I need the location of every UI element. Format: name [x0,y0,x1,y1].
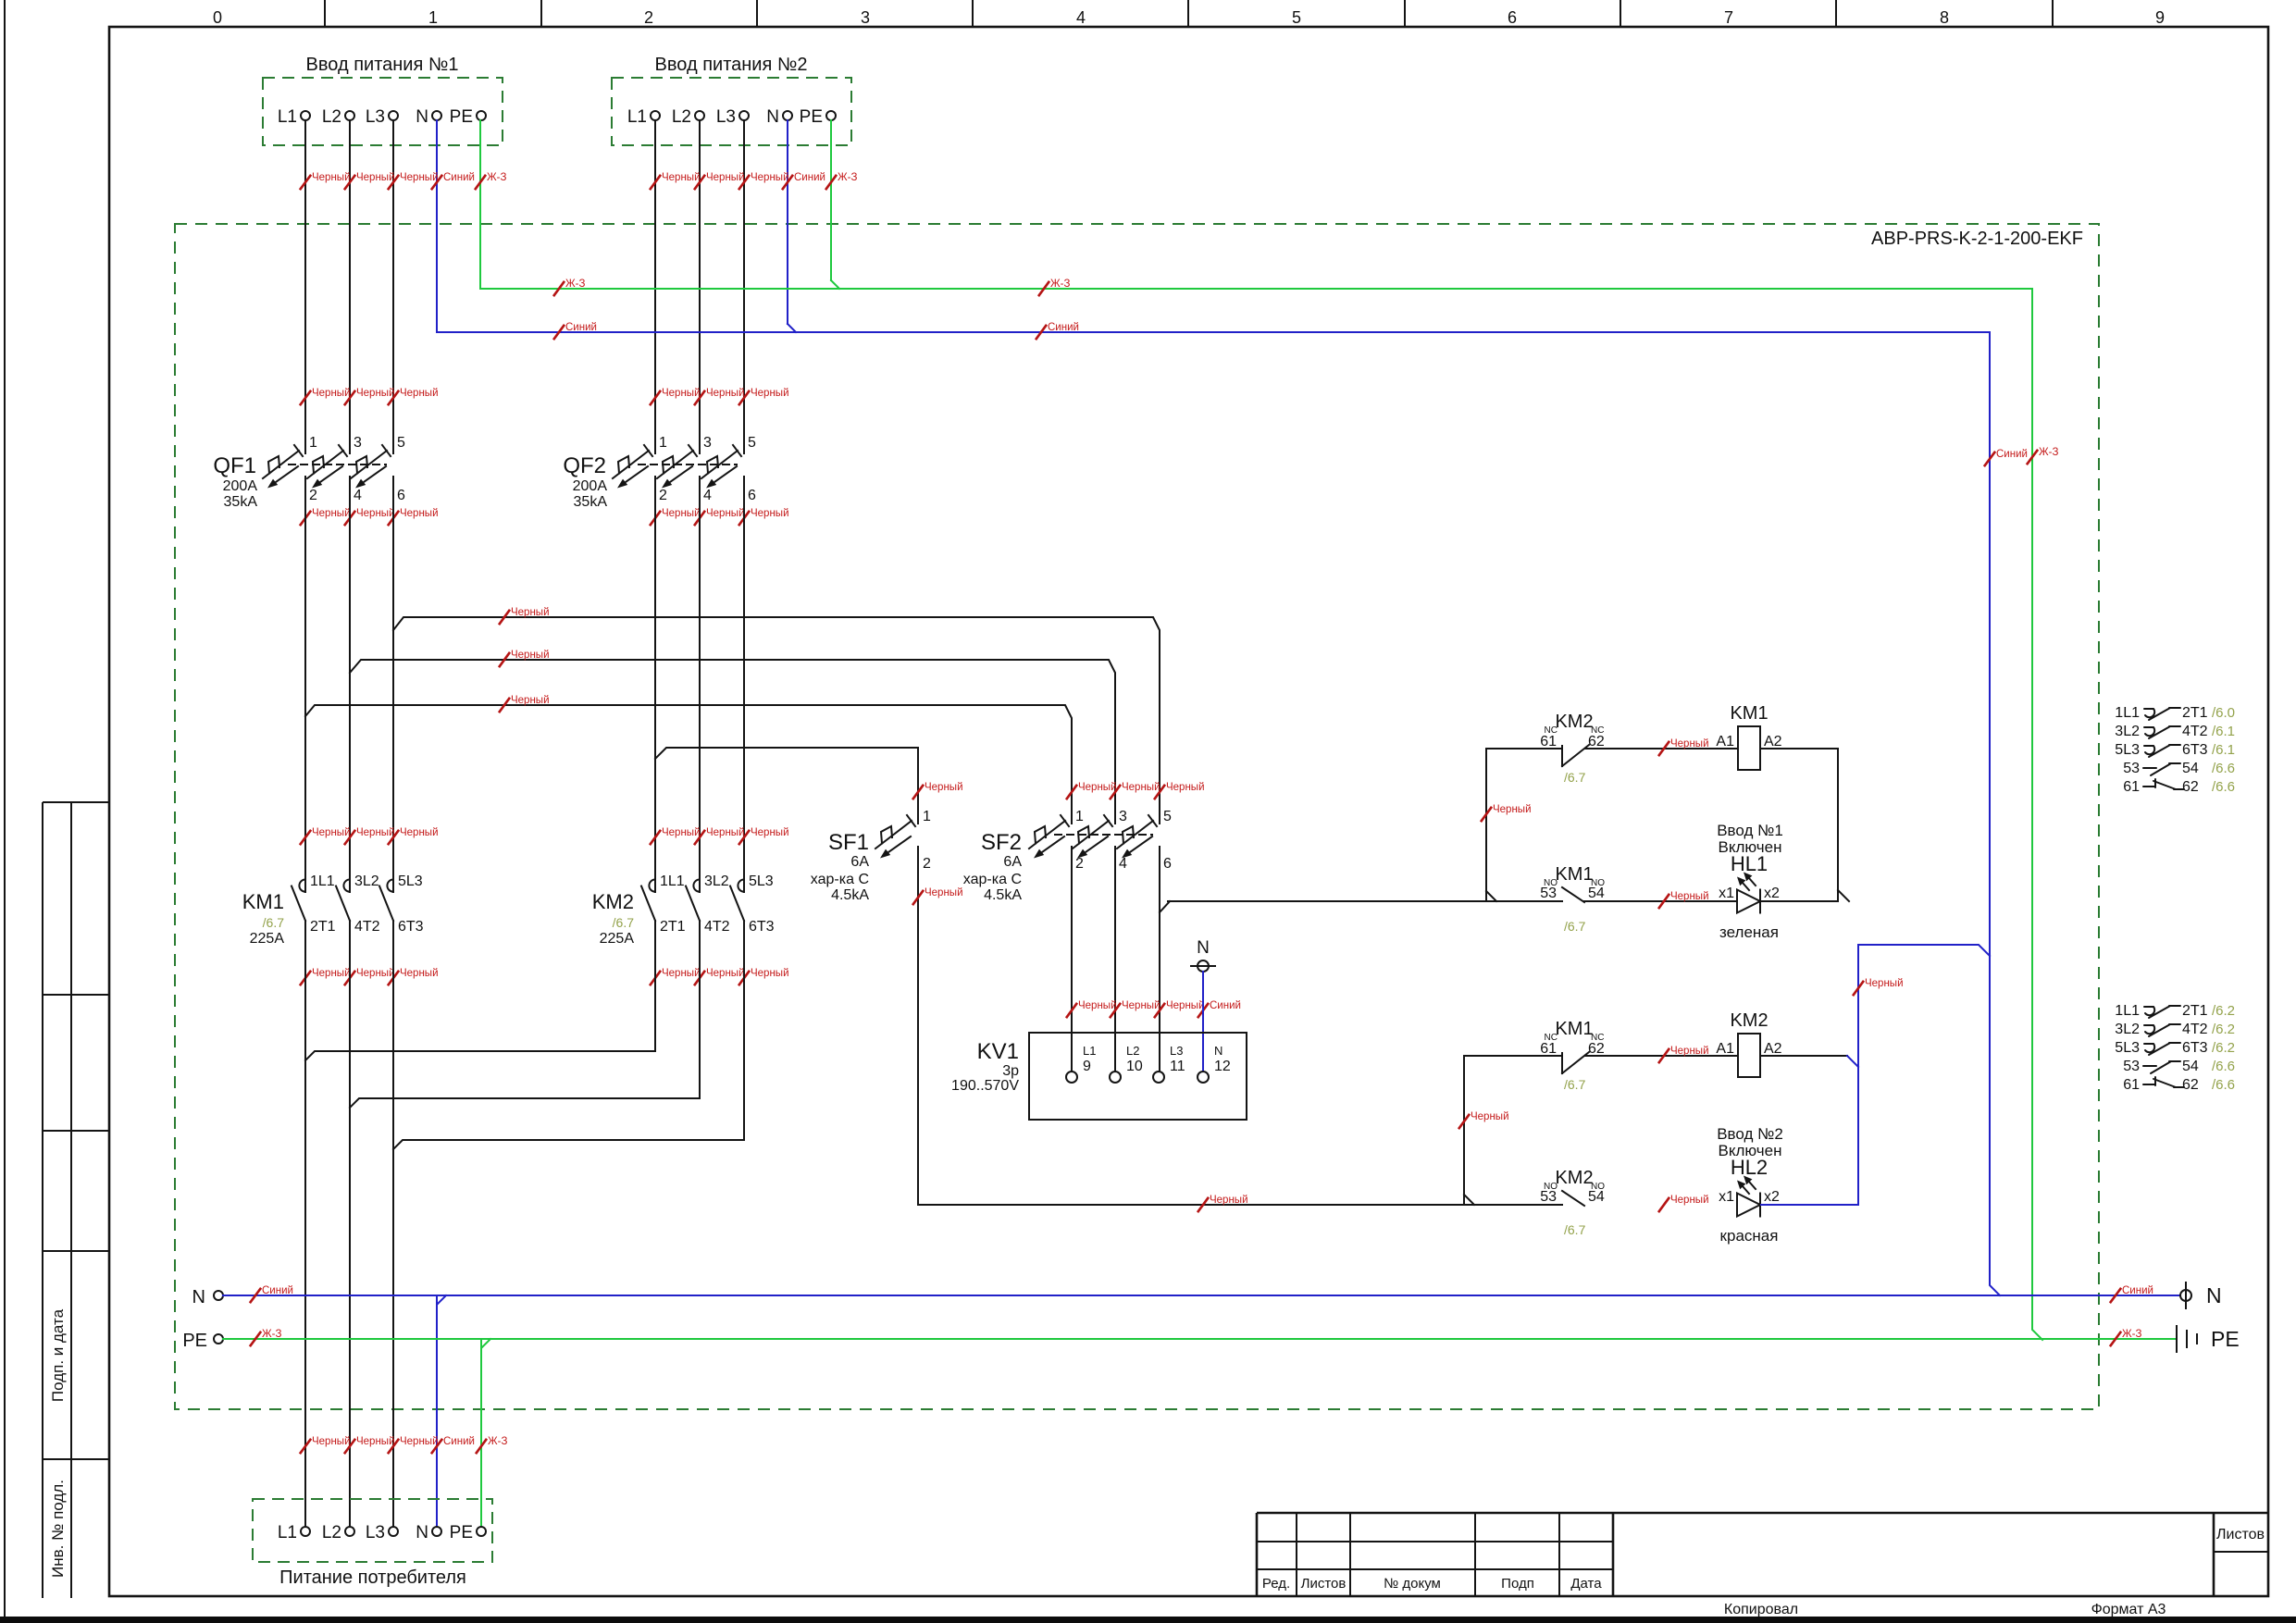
wire label Черный feed [1198,1197,1209,1212]
svg-text:Синий: Синий [2122,1285,2153,1296]
output terminal L1 [301,1527,310,1536]
svg-text:N: N [766,107,779,127]
svg-text:Ж-З: Ж-З [487,172,506,183]
svg-text:KM2: KM2 [1555,712,1593,732]
svg-text:Черный: Черный [356,827,395,838]
sidebar table [42,802,43,1598]
wires KM1 outputs down [304,921,306,1527]
svg-text:/6.7: /6.7 [1564,770,1586,785]
page left edge [4,0,6,1617]
wire labels below QF2 [650,511,661,526]
svg-text:Черный: Черный [1078,782,1117,793]
svg-text:PE: PE [182,1331,207,1351]
terminal Ввод питания №2 L3 [739,111,749,120]
wire labels above SF2 [1066,785,1077,799]
svg-text:Черный: Черный [1210,1195,1248,1206]
svg-text:53: 53 [1540,886,1557,901]
svg-text:QF2: QF2 [563,453,606,478]
page bottom edge strip [0,1617,2296,1623]
wire coil rung group1 left [1486,748,1562,750]
lamp HL1 [1737,890,1760,913]
svg-text:0: 0 [213,8,222,27]
blue return loop group2 [1761,945,1990,1205]
svg-text:6А: 6А [1003,854,1022,870]
bus KM2 4T2 to L2 feeder [350,921,700,1108]
wires QF2 poles down to KM2 [654,759,656,892]
svg-text:6: 6 [1163,856,1172,872]
svg-text:Черный: Черный [706,827,745,838]
bus QF1 L3 to SF2 pin5 [392,477,394,630]
svg-text:Черный: Черный [356,508,395,519]
wire N to KV1 blue [1202,972,1204,1072]
circuit breaker QF1 [263,451,299,478]
svg-text:/6.7: /6.7 [613,915,635,930]
PE branch to output [480,1339,482,1527]
wire KM2NC to coil KM1 [1585,748,1738,750]
svg-text:6T3: 6T3 [398,919,424,935]
contactor KM1 main contacts [299,880,305,892]
wire SF2 pin6 tap to control rung [1160,901,1170,912]
svg-text:5L3: 5L3 [749,873,774,889]
svg-text:Черный: Черный [511,650,550,661]
svg-text:Ж-З: Ж-З [2039,447,2058,458]
svg-text:2T1: 2T1 [2182,705,2208,721]
svg-text:QF1: QF1 [213,453,256,478]
svg-text:L1: L1 [1083,1044,1096,1058]
ruler ticks [324,0,326,27]
wire labels below KM1 [300,971,311,985]
svg-text:Черный: Черный [400,1436,439,1447]
green bus Ж-З horizontal [480,288,2032,290]
svg-text:61: 61 [1540,1041,1557,1057]
voltage relay KV1 [1029,1033,1247,1120]
wire colour labels input 2 [650,175,661,190]
svg-text:N: N [416,107,428,127]
terminal box Ввод питания №2 [612,78,851,145]
wire QF1 L2 drop [349,120,351,453]
svg-text:9: 9 [2155,8,2165,27]
svg-text:L2: L2 [1126,1044,1139,1058]
svg-text:Подп: Подп [1501,1576,1534,1592]
svg-text:Черный: Черный [1670,1046,1709,1057]
svg-text:Черный: Черный [1493,804,1532,815]
svg-text:/6.7: /6.7 [1564,1077,1586,1092]
wire SF1 feed horizontal [918,1204,1562,1206]
svg-text:L3: L3 [366,107,385,127]
svg-text:5L3: 5L3 [398,873,423,889]
output terminal L3 [389,1527,398,1536]
svg-text:Черный: Черный [706,388,745,399]
svg-text:6А: 6А [850,854,869,870]
svg-text:Черный: Черный [312,1436,351,1447]
svg-text:Черный: Черный [511,695,550,706]
svg-text:1: 1 [1075,809,1084,824]
svg-text:/6.6: /6.6 [2212,1077,2235,1093]
svg-text:№ докум: № докум [1384,1576,1441,1592]
svg-text:A1: A1 [1716,1041,1734,1057]
svg-text:N: N [416,1523,428,1542]
svg-text:Черный: Черный [312,827,351,838]
circuit breaker SF2 [1029,821,1065,849]
svg-text:2: 2 [923,856,931,872]
svg-text:Черный: Черный [925,887,963,898]
terminal box Ввод питания №1 [263,78,503,145]
lamp HL2 [1737,1194,1760,1217]
svg-text:x2: x2 [1764,886,1780,901]
junction stub group1 [1838,890,1849,901]
svg-text:54: 54 [1588,886,1605,901]
svg-text:6T3: 6T3 [2182,1040,2208,1056]
svg-text:/6.0: /6.0 [2212,705,2235,721]
wire labels above QF2 [650,390,661,405]
svg-text:4T2: 4T2 [354,919,380,935]
svg-text:5: 5 [748,435,756,451]
wire label Черный on blue drop [1853,981,1864,996]
wire control left vertical group1 [1485,749,1487,901]
svg-text:Инв. № подл.: Инв. № подл. [49,1480,67,1578]
wire labels below SF2 [1066,1003,1077,1018]
svg-text:Черный: Черный [751,172,789,183]
circuit breaker QF2 [613,451,649,478]
svg-text:Ред.: Ред. [1262,1576,1290,1592]
svg-text:зеленая: зеленая [1719,923,1779,941]
svg-text:/6.7: /6.7 [263,915,285,930]
svg-text:2T1: 2T1 [2182,1003,2208,1019]
svg-text:35kA: 35kA [224,494,258,510]
svg-text:35kA: 35kA [574,494,608,510]
svg-text:Черный: Черный [706,172,745,183]
svg-text:Черный: Черный [400,508,439,519]
wire KM1NO to HL1 [1584,900,1737,902]
svg-text:1L1: 1L1 [660,873,685,889]
svg-text:/6.1: /6.1 [2212,742,2235,758]
terminal Ввод питания №2 PE [826,111,836,120]
svg-text:54: 54 [1588,1189,1605,1205]
svg-text:A2: A2 [1764,1041,1782,1057]
svg-text:/6.1: /6.1 [2212,724,2235,739]
svg-text:3L2: 3L2 [704,873,729,889]
wire coil KM1 A2 right [1760,749,1838,901]
svg-text:Черный: Черный [356,968,395,979]
svg-text:Черный: Черный [1670,1195,1709,1206]
svg-text:KM1: KM1 [242,890,284,913]
svg-text:KV1: KV1 [977,1039,1019,1064]
svg-text:5L3: 5L3 [2115,1040,2140,1056]
terminal Ввод питания №1 N [432,111,441,120]
N branch to output [436,1295,438,1527]
svg-text:L2: L2 [322,1523,341,1542]
svg-text:2T1: 2T1 [310,919,336,935]
node N terminal left [214,1291,223,1300]
svg-text:Синий: Синий [794,172,825,183]
svg-text:7: 7 [1724,8,1733,27]
terminal Ввод питания №1 L2 [345,111,354,120]
svg-text:Черный: Черный [400,968,439,979]
riser labels Синий Ж-З [1984,452,1995,466]
bus labels Черный on QF1 buses [499,610,510,625]
terminal Ввод питания №2 N [783,111,792,120]
blue bus Синий horizontal [437,331,1990,333]
wire control rung 1 horizontal [1168,900,1562,902]
svg-text:3: 3 [354,435,362,451]
svg-text:/6.2: /6.2 [2212,1022,2235,1037]
svg-text:/6.6: /6.6 [2212,1059,2235,1074]
svg-text:5: 5 [1163,809,1172,824]
svg-text:3: 3 [861,8,870,27]
svg-text:190..570V: 190..570V [951,1078,1019,1094]
svg-text:1L1: 1L1 [2115,705,2140,721]
svg-text:/6.2: /6.2 [2212,1040,2235,1056]
svg-text:Черный: Черный [751,827,789,838]
svg-text:PE: PE [2211,1327,2240,1351]
wire QF2 L1 drop [654,120,656,453]
svg-text:KM1: KM1 [1730,703,1768,724]
svg-text:Формат А3: Формат А3 [2091,1602,2166,1617]
svg-text:Черный: Черный [356,388,395,399]
wire label below SF1 [912,890,924,905]
svg-text:Ж-З: Ж-З [838,172,857,183]
green riser right [2032,289,2042,1340]
wire QF1 L3 drop [392,120,394,453]
svg-text:53: 53 [2123,1059,2140,1074]
wire KM1NC to coil KM2 [1585,1055,1738,1057]
svg-text:Черный: Черный [312,508,351,519]
svg-text:Питание потребителя: Питание потребителя [279,1567,466,1588]
svg-text:53: 53 [1540,1189,1557,1205]
svg-text:Черный: Черный [1166,1000,1205,1011]
svg-text:Синий: Синий [565,322,597,333]
svg-text:красная: красная [1720,1227,1779,1245]
svg-text:4T2: 4T2 [2182,1022,2208,1037]
wire coil KM2 A2 right [1760,1055,1847,1057]
svg-text:Черный: Черный [1122,782,1160,793]
svg-text:53: 53 [2123,761,2140,776]
output terminal N [432,1527,441,1536]
svg-text:Синий: Синий [443,1436,475,1447]
svg-text:PE: PE [450,1523,473,1542]
svg-text:Черный: Черный [662,968,701,979]
svg-text:L1: L1 [278,107,297,127]
svg-text:/6.7: /6.7 [1564,1222,1586,1237]
node PE terminal left [214,1334,223,1344]
svg-text:A2: A2 [1764,734,1782,750]
wire SF1 down to control feed [917,847,919,1205]
wire label Черный coil rung1 [1658,741,1669,756]
svg-text:Черный: Черный [1865,978,1904,989]
svg-text:Синий: Синий [443,172,475,183]
svg-text:62: 62 [1588,734,1605,750]
contact KM2 NC 61-62 [1561,746,1563,766]
svg-text:Ввод №1: Ввод №1 [1717,822,1783,839]
junction fillet rung1 [1486,891,1496,901]
wire QF2 L3 drop [743,120,745,453]
blue riser right [1990,332,2000,1295]
svg-text:Черный: Черный [662,388,701,399]
svg-text:N: N [2206,1283,2222,1307]
svg-text:Черный: Черный [312,172,351,183]
svg-text:Синий: Синий [1048,322,1079,333]
svg-text:Черный: Черный [356,1436,395,1447]
svg-text:6: 6 [748,488,756,503]
wire PE2 green drop [830,120,832,280]
svg-text:Ж-З: Ж-З [565,279,585,290]
node N terminal right [2180,1290,2191,1301]
svg-text:/6.7: /6.7 [1564,919,1586,934]
svg-text:Черный: Черный [662,508,701,519]
svg-text:x1: x1 [1719,886,1734,901]
svg-text:Черный: Черный [1166,782,1205,793]
contactor KM2 main contacts [649,880,655,892]
svg-text:Черный: Черный [400,388,439,399]
svg-text:Черный: Черный [662,827,701,838]
wires QF1 poles down to KM1 [304,716,306,892]
svg-text:61: 61 [2123,779,2140,795]
svg-text:3: 3 [703,435,712,451]
svg-text:L3: L3 [716,107,736,127]
svg-text:N: N [1197,938,1210,958]
svg-text:225A: 225A [600,931,635,947]
terminal box Питание потребителя [253,1499,492,1562]
svg-text:Черный: Черный [1670,891,1709,902]
svg-text:хар-ка С: хар-ка С [811,872,869,887]
bus KM2 6T3 to L3 feeder [393,921,744,1149]
wire QF1 L1 drop [304,120,306,453]
svg-text:4.5kA: 4.5kA [984,887,1022,903]
svg-text:Ввод №2: Ввод №2 [1717,1125,1783,1143]
svg-text:3L2: 3L2 [354,873,379,889]
svg-text:62: 62 [1588,1041,1605,1057]
svg-text:1L1: 1L1 [310,873,335,889]
svg-text:5: 5 [1292,8,1301,27]
svg-text:KM2: KM2 [1555,1168,1593,1188]
wire labels above QF1 [300,390,311,405]
wire label Черный lamp rung2 [1658,1197,1669,1212]
svg-text:8: 8 [1940,8,1949,27]
svg-text:/6.6: /6.6 [2212,761,2235,776]
svg-text:1: 1 [309,435,317,451]
svg-text:Подп. и дата: Подп. и дата [49,1308,67,1402]
svg-text:54: 54 [2182,761,2199,776]
contact KM2 NO 53-54 [1562,1191,1584,1206]
svg-text:N: N [192,1287,205,1307]
svg-text:/6.6: /6.6 [2212,779,2235,795]
svg-text:KM2: KM2 [592,890,634,913]
wire QF2 L2 drop [699,120,701,453]
svg-text:Черный: Черный [312,968,351,979]
svg-text:хар-ка С: хар-ка С [963,872,1022,887]
PE bus green [223,1338,2177,1340]
svg-text:Черный: Черный [511,607,550,618]
svg-text:200A: 200A [573,478,608,494]
svg-text:SF2: SF2 [981,830,1022,855]
wires SF2 outputs to KV1 [1071,847,1073,1072]
wire coil rung group2 left [1464,1055,1562,1057]
wire N2 blue drop [787,120,788,324]
svg-text:L1: L1 [627,107,647,127]
terminal Ввод питания №1 PE [477,111,486,120]
svg-text:Копировал: Копировал [1724,1602,1798,1617]
N bus blue [223,1295,2180,1296]
svg-text:6: 6 [397,488,405,503]
svg-text:Включен: Включен [1719,1142,1782,1159]
PE bus labels Ж-З [250,1332,261,1346]
wire labels above KM1 [300,830,311,845]
bus QF1 L2 to SF2 pin3 [349,477,351,673]
svg-text:Листов: Листов [2216,1527,2265,1542]
svg-text:Ж-З: Ж-З [2122,1329,2141,1340]
title block table [1257,1512,2268,1515]
svg-text:3: 3 [1119,809,1127,824]
terminal Ввод питания №1 L3 [389,111,398,120]
svg-text:4T2: 4T2 [2182,724,2208,739]
bus labels Синий [553,325,565,340]
svg-text:Черный: Черный [1471,1111,1509,1122]
svg-text:Черный: Черный [706,508,745,519]
svg-text:Черный: Черный [751,508,789,519]
junction fillet rung4 [1464,1195,1474,1205]
svg-text:10: 10 [1126,1059,1143,1074]
svg-text:Листов: Листов [1301,1576,1347,1592]
svg-text:3p: 3p [1002,1063,1019,1079]
svg-text:4: 4 [354,488,362,503]
svg-text:Синий: Синий [262,1285,293,1296]
svg-text:x1: x1 [1719,1189,1734,1205]
svg-text:6T3: 6T3 [2182,742,2208,758]
svg-text:Черный: Черный [356,172,395,183]
enclosure dashed box ABP-PRS [175,224,2099,1409]
bus labels Ж-З [553,281,565,296]
svg-text:4: 4 [703,488,712,503]
wire HL1 x2 right [1760,900,1838,902]
svg-text:Ввод питания №1: Ввод питания №1 [306,55,459,75]
svg-text:PE: PE [800,107,823,127]
svg-text:Черный: Черный [662,172,701,183]
svg-text:/6.2: /6.2 [2212,1003,2235,1019]
svg-text:6: 6 [1508,8,1517,27]
svg-text:SF1: SF1 [828,830,869,855]
svg-text:Синий: Синий [1996,449,2028,460]
svg-text:Черный: Черный [1078,1000,1117,1011]
svg-text:PE: PE [450,107,473,127]
ground PE symbol right [2176,1326,2178,1352]
svg-text:L3: L3 [366,1523,385,1542]
svg-text:5: 5 [397,435,405,451]
terminal Ввод питания №1 L1 [301,111,310,120]
wire label Черный lamp rung1 [1658,894,1669,909]
bus QF2 L1 to SF1 [654,477,656,759]
svg-text:Черный: Черный [1670,738,1709,750]
wire labels above KM2 [650,830,661,845]
svg-text:Ж-З: Ж-З [1050,279,1070,290]
wire label above SF1 [912,785,924,799]
svg-text:KM2: KM2 [1730,1010,1768,1031]
svg-text:12: 12 [1214,1059,1231,1074]
bus KM2 2T1 to L1 feeder [305,921,655,1060]
svg-text:Синий: Синий [1210,1000,1241,1011]
svg-text:4: 4 [1076,8,1086,27]
svg-text:Дата: Дата [1570,1576,1602,1592]
svg-text:Включен: Включен [1719,838,1782,856]
svg-text:3L2: 3L2 [2115,724,2140,739]
svg-text:5L3: 5L3 [2115,742,2140,758]
terminal Ввод питания №2 L1 [651,111,660,120]
wire label Черный group1 vertical [1481,807,1492,822]
wire colour labels input 1 [300,175,311,190]
svg-text:2: 2 [659,488,667,503]
svg-text:1: 1 [428,8,438,27]
svg-text:6T3: 6T3 [749,919,775,935]
svg-text:Черный: Черный [400,172,439,183]
